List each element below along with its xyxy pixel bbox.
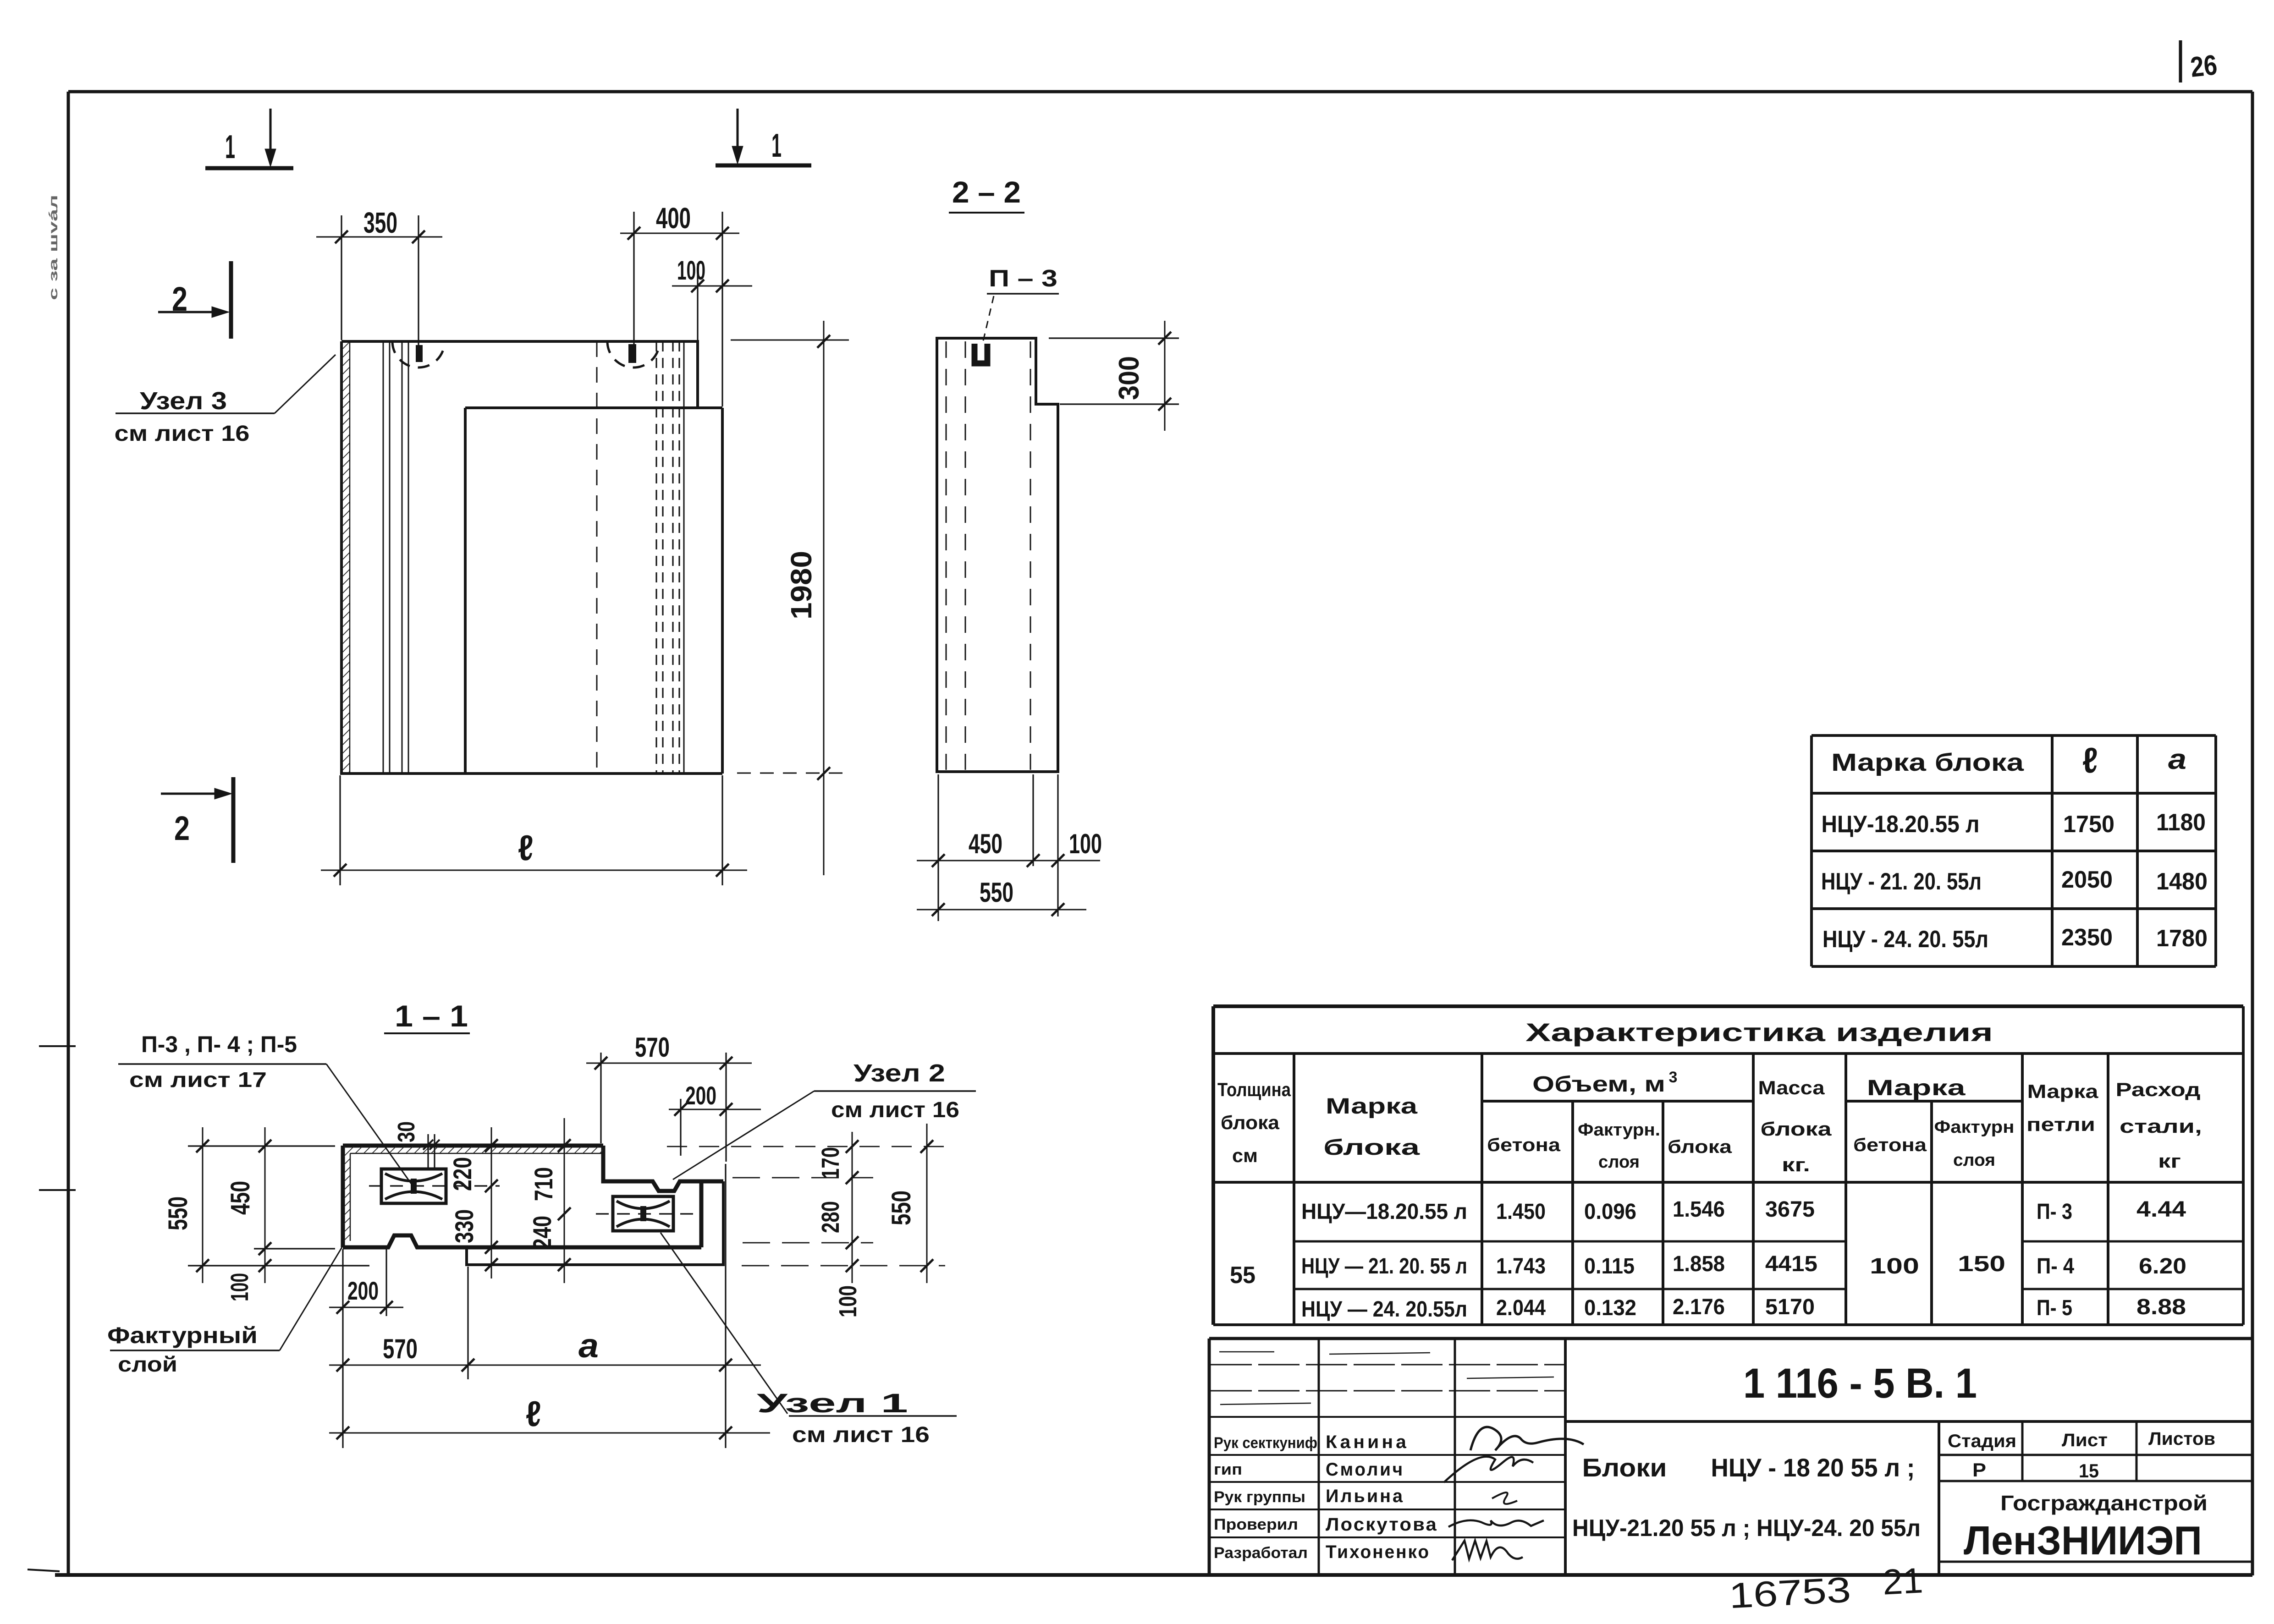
elevation view: block outline [341,341,722,774]
svg-text:Толщина: Толщина [1217,1079,1291,1100]
dimension 200 (plan bottom left) [329,1249,403,1316]
svg-text:200: 200 [347,1276,379,1305]
svg-text:1980: 1980 [785,551,818,620]
table2 header Фактурн слоя (объем) [1578,1120,1660,1172]
table2 header Масса блока кг [1758,1077,1832,1175]
svg-text:1780: 1780 [2156,925,2208,952]
svg-text:21: 21 [1882,1560,1924,1602]
svg-text:НЦУ-18.20.55 л: НЦУ-18.20.55 л [1822,811,1980,838]
svg-text:570: 570 [635,1032,670,1063]
signature scribble row2 [1444,1457,1533,1482]
svg-text:4415: 4415 [1765,1252,1817,1276]
table2 header Объем м3 [1532,1069,1677,1097]
svg-text:26: 26 [2189,49,2219,83]
svg-text:слоя: слоя [1953,1151,1995,1170]
plan loop П left (spool) with centreline [369,1169,500,1203]
svg-text:Марка: Марка [1326,1094,1417,1119]
dimension 550 (section 2-2 bottom total) [917,877,1086,916]
svg-text:2.176: 2.176 [1673,1295,1725,1319]
plan 1-1 textured layer hatch strips [344,1147,603,1241]
svg-text:кг.: кг. [1782,1154,1810,1175]
dimensions 550 450 100 (plan left verticals) [163,1127,369,1301]
svg-text:1480: 1480 [2156,868,2208,895]
table2 header Марка блока [1323,1094,1420,1160]
svg-text:П- 3: П- 3 [2037,1200,2072,1224]
svg-text:3675: 3675 [1765,1197,1815,1222]
svg-text:см лист 16: см лист 16 [831,1098,959,1122]
plan 1-1 cut outline (thick) [343,1146,723,1247]
section mark 2 top (cut line 2) [158,261,231,339]
svg-text:с за шváл: с за шváл [46,195,60,300]
svg-text:100: 100 [1870,1254,1919,1278]
table2 row2 НЦУ-21.20.55л [1301,1252,2186,1278]
dimension 30 (left loop offset) [393,1121,440,1169]
values Р 15 [1972,1459,2099,1481]
svg-text:1.743: 1.743 [1496,1254,1546,1278]
table2 header Расход стали кг [2116,1079,2202,1172]
signature scribble row5 [1452,1541,1523,1560]
svg-text:Фактурн.: Фактурн. [1578,1120,1660,1140]
svg-text:см лист 17: см лист 17 [129,1068,267,1092]
svg-text:5170: 5170 [1765,1295,1815,1319]
dimensions 570 and a (plan bottom) [329,1267,761,1379]
svg-text:Госгражданстрой: Госгражданстрой [2000,1491,2208,1515]
svg-text:слой: слой [118,1352,177,1376]
table Марка блока header texts [1831,740,2186,780]
svg-text:200: 200 [685,1081,716,1110]
svg-text:НЦУ—18.20.55 л: НЦУ—18.20.55 л [1301,1200,1467,1224]
svg-text:1 116 - 5 В. 1: 1 116 - 5 В. 1 [1743,1360,1977,1407]
title block outer frame [1209,1339,2252,1575]
svg-text:Марка блока: Марка блока [1831,749,2024,776]
table row НЦУ-24.20.55л 2350 1780 [1823,924,2208,953]
svg-text:петли: петли [2026,1114,2095,1135]
label П-3 П-4 П-5 см лист 17 with leader to left loop [118,1031,411,1184]
signature scribble row4 [1448,1520,1544,1527]
svg-text:стали,: стали, [2120,1115,2202,1137]
label П-3 with dashed leader [982,265,1059,345]
table2 header Фактурн слоя (марка) [1934,1118,2015,1170]
svg-text:550: 550 [163,1196,193,1230]
dimension 200 (plan top right) [669,1053,761,1162]
label Узел 2 см лист 16 with leader to notch [673,1059,976,1180]
svg-text:НЦУ — 24. 20.55л: НЦУ — 24. 20.55л [1301,1297,1467,1322]
table2 row1 НЦУ-18.20.55л [1301,1197,2186,1224]
svg-text:15: 15 [2079,1460,2099,1481]
svg-text:НЦУ — 21. 20. 55 л: НЦУ — 21. 20. 55 л [1301,1254,1467,1278]
section mark 1 left (cut line 1) [205,109,293,168]
svg-text:550: 550 [980,877,1013,908]
section mark 2 bottom (cut line 2) [161,777,233,863]
table2 row3 НЦУ-24.20.55л [1301,1295,2186,1322]
label Узел 1 см лист 16 with leader from right loop [661,1233,957,1447]
title block right box bottom line [1939,1561,2252,1563]
svg-text:Марка: Марка [1867,1076,1966,1100]
svg-text:a: a [2168,744,2186,775]
svg-text:a: a [578,1327,599,1365]
plan loop П right (spool) with centreline [596,1196,697,1231]
svg-text:0.096: 0.096 [1584,1200,1636,1224]
svg-text:Узел 3: Узел 3 [140,387,227,415]
svg-text:450: 450 [226,1181,255,1215]
svg-text:8.88: 8.88 [2136,1295,2186,1319]
svg-text:1.858: 1.858 [1673,1252,1725,1276]
fold marks on left border [28,1046,76,1571]
lifting loop П-3 left (dashed arc + anchor tick) [392,341,445,368]
svg-text:Ильина: Ильина [1326,1486,1404,1506]
signature scribble row3 [1492,1492,1517,1504]
svg-text:2050: 2050 [2061,867,2113,893]
svg-text:ℓ: ℓ [518,828,534,868]
table row НЦУ-21.20.55л 2050 1480 [1821,867,2208,895]
svg-text:Стадия: Стадия [1948,1431,2016,1451]
section mark 1 right (cut line 1) [716,109,811,165]
svg-text:П-3 , П- 4 ; П-5: П-3 , П- 4 ; П-5 [141,1031,297,1057]
svg-text:П – 3: П – 3 [989,265,1057,292]
svg-text:блока: блока [1668,1137,1732,1157]
svg-text:Объем, м: Объем, м [1532,1072,1665,1097]
title block drawing name line1 [1582,1453,1915,1482]
svg-text:1750: 1750 [2063,811,2114,838]
dimension ell (plan bottom overall) [329,1164,770,1448]
svg-text:30: 30 [393,1121,420,1142]
section 2-2 loop anchor П-3 (black U mark) [975,344,987,363]
dimension 710 and 240 (plan middle internal vertical) [528,1118,571,1283]
elevation textured layer (facade strip) with hatch [342,341,350,774]
svg-text:НЦУ - 18 20 55 л ;: НЦУ - 18 20 55 л ; [1711,1453,1915,1482]
svg-text:НЦУ - 21. 20. 55л: НЦУ - 21. 20. 55л [1821,868,1982,895]
svg-text:550: 550 [886,1191,916,1225]
svg-text:блока: блока [1221,1112,1280,1133]
svg-text:Листов: Листов [2148,1429,2215,1449]
svg-text:1180: 1180 [2156,809,2206,836]
handwritten archive number 16753 21 [1728,1560,1924,1616]
table2 header Толщина блока см [1217,1079,1291,1166]
svg-text:2350: 2350 [2061,924,2113,951]
svg-text:блока: блока [1761,1118,1832,1140]
svg-text:570: 570 [383,1333,418,1364]
svg-text:100: 100 [834,1285,862,1317]
svg-text:НЦУ - 24. 20. 55л: НЦУ - 24. 20. 55л [1823,926,1988,953]
svg-text:Узел 2: Узел 2 [853,1059,945,1087]
title block stage sheet subtable [1939,1421,2252,1575]
svg-text:бетона: бетона [1853,1135,1927,1155]
svg-text:бетона: бетона [1487,1135,1561,1155]
svg-text:6.20: 6.20 [2139,1254,2186,1278]
svg-text:4.44: 4.44 [2136,1197,2186,1222]
dimensions 170 280 100 (plan right internal vertical) [667,1132,945,1317]
svg-text:100: 100 [1069,828,1102,859]
section 2-2 block outline [937,338,1058,772]
lifting loop П-3 right (dashed arc + anchor tick) [607,341,660,368]
svg-text:слоя: слоя [1598,1152,1640,1172]
dimension 550 (plan right overall vertical) [886,1124,933,1283]
svg-text:2 – 2: 2 – 2 [952,175,1021,209]
svg-text:НЦУ-21.20 55 л ; НЦУ-24. 20 5: НЦУ-21.20 55 л ; НЦУ-24. 20 55л [1572,1515,1921,1542]
svg-text:3: 3 [1669,1069,1678,1086]
plan 1-1 projected lower part outline [467,1181,723,1265]
svg-text:0.115: 0.115 [1584,1254,1635,1278]
svg-text:Рук секткуниф: Рук секткуниф [1214,1434,1317,1452]
dimension 1980 (elevation right vertical) [731,321,849,875]
faint margin notes left edge [46,195,60,300]
svg-text:см лист 16: см лист 16 [115,422,250,446]
labels Стадия Лист Листов [1948,1429,2215,1451]
svg-text:Смолич: Смолич [1326,1459,1404,1480]
table Характеристика изделия frame [1213,1006,2243,1325]
svg-text:гип: гип [1214,1461,1242,1478]
svg-text:кг: кг [2158,1150,2181,1172]
elevation hidden dashed verticals [597,341,679,774]
dimension 100 (elevation top right small) [672,212,752,406]
elevation solid vertical near right dashed group [683,341,685,774]
svg-text:Канина: Канина [1326,1432,1409,1452]
svg-text:см лист 16: см лист 16 [792,1423,930,1447]
title block left grid rows [1211,1365,1565,1537]
svg-text:0.132: 0.132 [1584,1296,1636,1320]
title block role labels [1214,1434,1317,1562]
svg-text:Р: Р [1972,1459,1986,1481]
svg-text:см: см [1232,1145,1258,1166]
dimension 400 (elevation top right) [620,202,739,362]
title block upper-row faint extra dashes [1219,1352,1554,1405]
label 2-2 [949,175,1024,213]
svg-text:ℓ: ℓ [2082,740,2098,780]
svg-text:2: 2 [174,809,190,847]
svg-text:Расход: Расход [2116,1079,2201,1100]
svg-text:710: 710 [529,1167,558,1201]
svg-text:Фактурный: Фактурный [107,1322,258,1348]
svg-text:блока: блока [1323,1136,1420,1160]
label 1-1 [384,999,470,1033]
svg-text:16753: 16753 [1728,1569,1852,1616]
signature scribble row1 [1470,1427,1584,1450]
svg-text:150: 150 [1958,1252,2005,1276]
dimension 570 (plan top) [586,1032,752,1143]
table Марка блока frame [1811,735,2216,966]
svg-text:Марка: Марка [2027,1081,2099,1102]
svg-text:Рук группы: Рук группы [1214,1488,1305,1506]
svg-text:170: 170 [817,1147,844,1179]
svg-text:100: 100 [226,1273,253,1301]
svg-text:Тихоненко: Тихоненко [1326,1542,1430,1562]
svg-text:400: 400 [656,202,691,235]
dimension 300 (section 2-2 right) [1049,321,1179,431]
svg-text:Фактурн: Фактурн [1934,1118,2015,1137]
svg-text:П- 4: П- 4 [2037,1254,2074,1278]
svg-text:Разработал: Разработал [1214,1544,1308,1562]
dimension 220 and 330 (plan left internal vertical) [448,1127,498,1278]
dimension 350 (elevation top left) [316,206,442,351]
dimension 450 and 100 (section 2-2 bottom) [917,774,1102,921]
svg-text:1 – 1: 1 – 1 [395,999,468,1033]
title block names [1326,1432,1438,1562]
label Узел 3 см лист 16 with leader [115,355,336,446]
svg-text:280: 280 [817,1201,844,1233]
svg-text:Лист: Лист [2062,1430,2108,1450]
section 2-2 hidden dashed lines [946,341,1030,770]
svg-text:1: 1 [771,127,782,164]
svg-text:ЛенЗНИИЭП: ЛенЗНИИЭП [1964,1518,2202,1563]
svg-text:330: 330 [450,1209,479,1243]
svg-text:П- 5: П- 5 [2037,1296,2072,1320]
svg-text:1.546: 1.546 [1673,1197,1725,1222]
svg-text:Блоки: Блоки [1582,1453,1667,1482]
table2 header Марка петли [2026,1081,2098,1135]
svg-text:1.450: 1.450 [1496,1200,1546,1224]
svg-text:300: 300 [1113,356,1145,400]
elevation thin vertical edges [383,341,408,774]
svg-text:100: 100 [677,256,705,285]
title block project number box line [1565,1420,2252,1423]
svg-text:Проверил: Проверил [1214,1516,1298,1533]
page number 26 top right [2180,40,2219,83]
svg-text:Масса: Масса [1758,1077,1825,1098]
svg-text:Характеристика изделия: Характеристика изделия [1525,1018,1993,1047]
svg-text:240: 240 [528,1216,556,1250]
svg-text:350: 350 [363,206,397,239]
svg-text:450: 450 [969,828,1002,859]
dimension ell (elevation bottom width) [321,775,747,885]
table row НЦУ-18.20.55л 1750 1180 [1822,809,2206,838]
svg-text:55: 55 [1230,1262,1255,1289]
svg-text:Лоскутова: Лоскутова [1326,1514,1438,1535]
svg-text:220: 220 [448,1157,477,1191]
label Фактурный слой with leader [107,1247,342,1376]
svg-text:2.044: 2.044 [1496,1296,1546,1320]
svg-text:ℓ: ℓ [526,1394,541,1434]
svg-text:1: 1 [225,129,235,165]
